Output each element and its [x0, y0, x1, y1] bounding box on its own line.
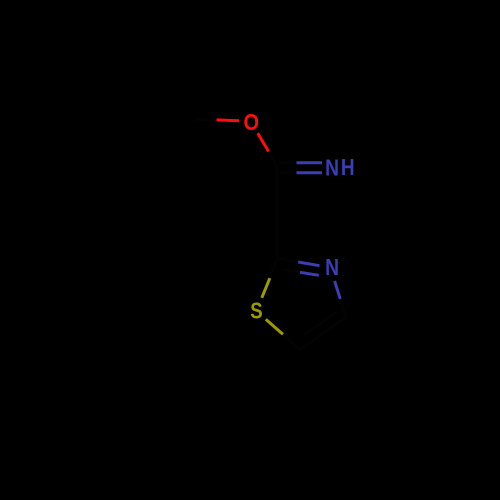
wire: double bond C2=N3 nitrogen halves (blue) [298, 262, 319, 266]
wire: bond O-C8 carbon half (dark) [269, 151, 278, 167]
svg-text:N: N [325, 155, 339, 181]
wire: double bond C2=N3 carbon halves (dark) [277, 258, 298, 262]
wire: bond N3-C4 nitrogen half (blue) [335, 281, 341, 299]
wire: bond S1-C5 carbon half (dark) [283, 334, 300, 349]
wire: bond C2-S1 sulfur half (yellow) [262, 278, 270, 298]
svg-text:H: H [341, 155, 355, 180]
svg-text:N: N [325, 254, 339, 280]
svg-text:S: S [250, 299, 262, 324]
wire: bond C2-S1 carbon half (dark) [269, 258, 277, 278]
wire: double bond C8=N8 nitrogen halves (blue) [297, 161, 323, 164]
node O: ether oxygen label [243, 108, 259, 135]
wire: double bond C8=N8 carbon halves (dark) [278, 161, 297, 164]
wire: bond CH3-O oxygen half (red) [217, 118, 240, 122]
node N8: imine NH label [325, 155, 339, 181]
wire: bond O-C8 oxygen half (red) [258, 133, 269, 151]
wire: double bond C4=C5 (dark) [300, 317, 346, 350]
wire: bond CH3-O carbon half (dark) [195, 118, 217, 122]
node S1: thiazole ring sulfur label [250, 299, 262, 324]
wire: bond S1-C5 sulfur half (yellow) [266, 319, 283, 334]
wire: bond C8-C2 (dark) [276, 168, 279, 259]
svg-text:O: O [243, 108, 259, 135]
node N3: thiazole ring nitrogen label [325, 254, 339, 280]
wire: bond N3-C4 carbon half (dark) [340, 299, 346, 317]
